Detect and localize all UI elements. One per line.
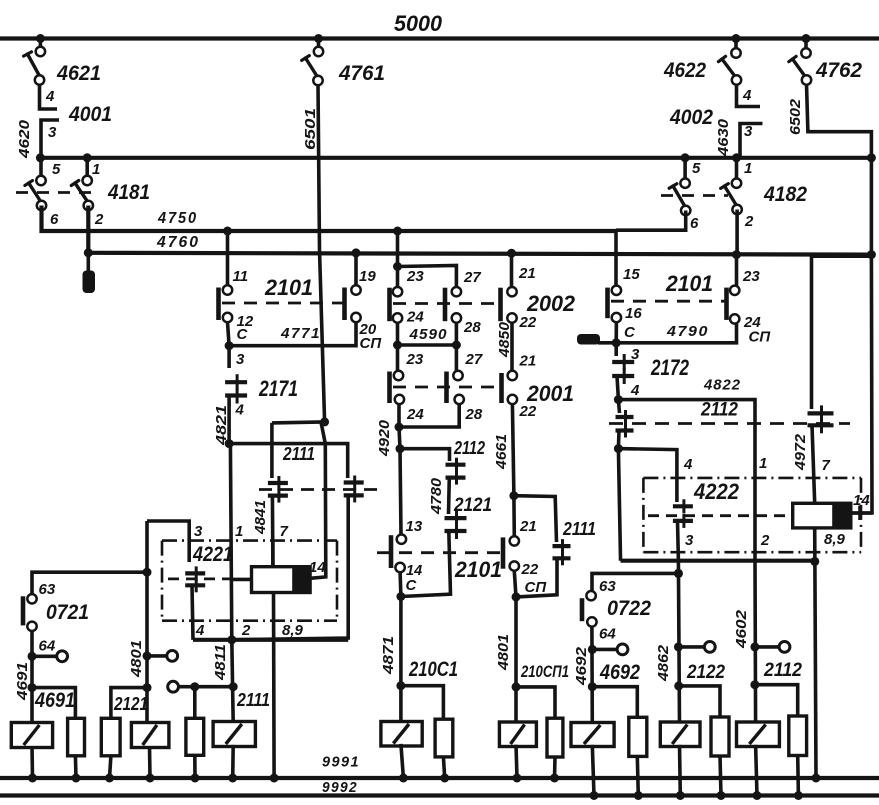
node 4821 tee xyxy=(225,439,234,448)
svg-text:2121: 2121 xyxy=(453,494,492,516)
svg-text:6502: 6502 xyxy=(787,98,804,135)
node 2112L bottom xyxy=(614,444,623,453)
svg-text:2112: 2112 xyxy=(763,659,802,681)
node 9991 wire 8-9 4222 xyxy=(812,774,821,783)
cable marker right xyxy=(598,341,616,345)
node 4692 tie xyxy=(588,682,597,691)
svg-text:2: 2 xyxy=(241,622,251,639)
resistor 4692 xyxy=(629,717,647,756)
terminal 64 right xyxy=(592,648,617,652)
svg-text:8,9: 8,9 xyxy=(282,622,304,639)
node 4760 start xyxy=(84,248,93,257)
terminal 2111 xyxy=(168,681,179,692)
node 9991 2121 res xyxy=(105,774,114,783)
svg-text:4620: 4620 xyxy=(16,119,33,159)
node 4691 tie xyxy=(28,683,37,692)
terminal 64 xyxy=(32,654,57,658)
wire 4692 coil to 9992 xyxy=(592,745,594,796)
svg-text:4: 4 xyxy=(630,382,640,399)
wire 4972 vertical xyxy=(810,256,814,409)
wire 4811 xyxy=(232,640,233,723)
node 9991 210C1 res xyxy=(440,774,449,783)
wire bus 9991 xyxy=(0,776,879,780)
node 9992 2122 res xyxy=(717,791,726,800)
node 2112 circle tie xyxy=(750,642,759,651)
wire right edge vertical xyxy=(870,158,874,255)
wire 4691 res to 9991 xyxy=(74,756,78,778)
svg-text:4181: 4181 xyxy=(107,180,150,204)
wire pin4 4221 inside xyxy=(192,585,193,640)
switch 4621 xyxy=(39,39,43,52)
wire 6501 down to coil 14 xyxy=(310,422,326,578)
wire into contact A xyxy=(270,423,274,478)
node 4760 right corner xyxy=(867,250,876,259)
wire 4692 res to 9992 xyxy=(637,756,638,795)
svg-text:4760: 4760 xyxy=(156,234,200,251)
cam link 2101 left xyxy=(222,302,344,305)
svg-text:22: 22 xyxy=(519,403,537,420)
node 9991 4691 coil xyxy=(28,774,37,783)
tie 24-28 2002 xyxy=(398,322,457,345)
svg-text:24: 24 xyxy=(406,309,424,326)
contact 2171 crosses xyxy=(225,380,247,384)
node 2111 tie xyxy=(229,682,238,691)
resistor 2111 xyxy=(186,718,204,755)
tie 210СП1 xyxy=(516,687,555,718)
node 2112 tie xyxy=(750,680,759,689)
relay 210C1 coil xyxy=(399,686,403,723)
wire 2122 res to 9992 xyxy=(720,756,721,796)
node 2122 tie xyxy=(674,681,683,690)
node 2121 tie xyxy=(143,683,152,692)
pin 24 xyxy=(730,314,739,323)
svg-text:2101: 2101 xyxy=(665,271,713,296)
resistor 210СП1 xyxy=(547,718,563,757)
node tap 4621 on bus 5000 xyxy=(36,34,45,43)
contact inside 4222 xyxy=(675,478,679,502)
svg-text:4841: 4841 xyxy=(252,500,269,535)
svg-text:28: 28 xyxy=(463,319,481,336)
wire 2111 coil to 9991 xyxy=(231,745,235,778)
svg-text:11: 11 xyxy=(233,268,249,285)
wire to pin4 4222 xyxy=(618,449,677,478)
svg-text:2172: 2172 xyxy=(650,355,689,380)
tie 2112 resistor xyxy=(755,685,798,716)
pin 19 xyxy=(351,285,360,294)
node pin5 4182 on bus2 xyxy=(681,153,690,162)
svg-text:4: 4 xyxy=(742,87,752,104)
wire 4691 coil to 9991 xyxy=(30,746,34,778)
wire 4602 pin2 down xyxy=(753,561,757,724)
svg-text:4850: 4850 xyxy=(496,321,513,358)
svg-text:4790: 4790 xyxy=(666,323,709,340)
wire 8-9 down xyxy=(272,593,276,779)
node 9991 2121 coil xyxy=(146,774,155,783)
node pin1 4181 on bus2 xyxy=(83,153,92,162)
pin 22 2001 xyxy=(508,395,517,404)
cam bar 2002-b xyxy=(443,288,448,322)
wire 4771 xyxy=(228,322,357,346)
wire 4850 xyxy=(510,322,514,371)
bus 4222 bottom xyxy=(621,559,817,563)
contact 2172 crosses xyxy=(612,360,634,364)
pin 23 2001 xyxy=(394,371,403,380)
pin 21 2002 xyxy=(507,287,516,296)
node 4822 tee xyxy=(614,395,623,404)
resistor 4691 xyxy=(68,718,85,756)
linkage 4181 xyxy=(16,191,94,194)
svg-text:4691: 4691 xyxy=(14,662,31,701)
wire pin21 mid from node xyxy=(512,496,516,536)
svg-text:2101: 2101 xyxy=(454,557,502,582)
svg-text:64: 64 xyxy=(599,626,616,643)
node 4771 tee xyxy=(225,341,234,350)
node 9992 4692 coil xyxy=(590,791,599,800)
wire pin7 through coil xyxy=(271,541,275,567)
tick pin14 xyxy=(858,506,861,520)
svg-text:2111: 2111 xyxy=(236,690,270,710)
bus 4221 bottom xyxy=(193,638,348,642)
wire bus 4750 xyxy=(42,206,617,232)
cam bar 2101L-a xyxy=(216,288,221,321)
svg-text:4002: 4002 xyxy=(669,105,713,129)
coil 4221 left stub xyxy=(232,578,252,582)
pin 21 2002 drop xyxy=(510,253,514,287)
wire 2121 res to 9991 xyxy=(110,756,111,778)
node 0722 feed xyxy=(674,569,683,578)
wire bus 9992 xyxy=(0,793,879,797)
tie 4692 resistor xyxy=(592,687,637,718)
svg-text:3: 3 xyxy=(48,124,57,141)
wire 2121 coil to 9991 xyxy=(148,746,152,778)
node 9991 210C1 coil xyxy=(399,774,408,783)
pin 19 drop xyxy=(354,253,358,285)
cam link 2101 mid xyxy=(377,551,502,554)
svg-text:2: 2 xyxy=(760,532,770,549)
wire 4182 pole2 down to pin23 xyxy=(735,210,739,255)
tie 24-28 2001 xyxy=(399,404,459,427)
cam bar 2002-c xyxy=(498,288,503,322)
node 9991 2111 res xyxy=(191,774,200,783)
node 4001 bottom on bus2 xyxy=(36,153,45,162)
coil 4222 xyxy=(793,503,851,528)
cam bar 2101M-b xyxy=(501,537,506,568)
node 24-2001 tie xyxy=(395,423,404,432)
wire 2111 return xyxy=(517,558,557,597)
svg-text:4222: 4222 xyxy=(693,479,739,504)
switch 4761 xyxy=(317,39,321,52)
svg-text:3: 3 xyxy=(744,123,753,140)
contact 2112 feed xyxy=(400,449,450,461)
svg-text:2002: 2002 xyxy=(526,291,575,316)
wire 2111 res to 9991 xyxy=(193,755,197,778)
svg-text:2112: 2112 xyxy=(453,438,485,458)
svg-text:4: 4 xyxy=(235,402,245,419)
node 0722 top xyxy=(674,569,683,578)
wire pin3 4221 xyxy=(147,521,189,562)
svg-text:4: 4 xyxy=(195,622,205,639)
node 4760 pin2-4182 xyxy=(732,250,741,259)
wire 8-9 4222 down xyxy=(815,528,816,778)
pin 22 2002 xyxy=(507,313,516,322)
pin 11 xyxy=(223,285,232,294)
svg-text:4692: 4692 xyxy=(573,646,590,686)
svg-text:4691: 4691 xyxy=(34,688,75,712)
svg-text:4590: 4590 xyxy=(408,326,447,343)
node C net xyxy=(396,592,405,601)
svg-text:2111: 2111 xyxy=(282,444,315,464)
node 64 tie xyxy=(28,652,37,661)
svg-text:C: C xyxy=(237,326,249,343)
svg-text:3: 3 xyxy=(236,351,245,368)
svg-text:4822: 4822 xyxy=(703,377,741,394)
svg-text:14: 14 xyxy=(309,559,326,576)
node 4750 right end corner xyxy=(614,230,618,285)
node 210C1 tie xyxy=(396,681,405,690)
wire 2112L to bus 4222 xyxy=(618,449,620,561)
pin 20 xyxy=(351,313,360,322)
svg-text:4622: 4622 xyxy=(663,58,706,82)
svg-text:2122: 2122 xyxy=(686,661,725,683)
wire 4750 drop to pins 23-27 of 2002 xyxy=(396,231,400,267)
contact 2112 right crosses xyxy=(808,411,834,415)
contact 2112 crosses xyxy=(446,463,466,467)
contact 4001 pin 3 side xyxy=(41,120,59,158)
node 64 tie right xyxy=(588,645,597,654)
cam bar 2101M-a xyxy=(389,535,394,568)
wire 2112 coil to 9992 xyxy=(756,745,757,796)
node pin2 to 4811 xyxy=(227,635,236,644)
wire 4780 xyxy=(447,478,451,514)
svg-text:28: 28 xyxy=(465,406,483,423)
relay 2111 coil xyxy=(213,722,255,747)
svg-text:22: 22 xyxy=(521,561,539,578)
svg-text:23: 23 xyxy=(406,351,424,368)
svg-text:22: 22 xyxy=(519,314,537,331)
wire 4790 xyxy=(616,322,736,343)
svg-text:4780: 4780 xyxy=(428,477,445,515)
svg-text:4221: 4221 xyxy=(192,542,233,566)
coil 4221 xyxy=(252,567,311,593)
cam link 2101 right xyxy=(611,300,725,303)
wire 210СП1 coil to 9991 xyxy=(516,745,517,778)
cam bar 2002-a xyxy=(387,288,392,322)
cam link inside 4221 xyxy=(168,578,234,581)
linkage 4182 xyxy=(661,194,728,197)
wire 4760 ext to 4972 xyxy=(812,254,872,258)
enclosure 4222 xyxy=(643,477,861,480)
node 4760 drop pin19 xyxy=(352,248,361,257)
relay 4692 coil xyxy=(571,723,614,747)
pin 21 mid xyxy=(510,536,519,545)
pin 23 xyxy=(730,286,739,295)
wire 2122 coil to 9992 xyxy=(678,745,682,796)
svg-text:4692: 4692 xyxy=(599,660,640,684)
svg-text:4750: 4750 xyxy=(157,210,198,227)
node 9991 2111 coil xyxy=(228,774,237,783)
wire 4871 xyxy=(399,597,403,686)
svg-text:63: 63 xyxy=(599,578,616,595)
wire 4841 to pin 7 xyxy=(271,496,275,567)
node tap 4622 on bus 5000 xyxy=(732,34,741,43)
wire pins 1-2 through xyxy=(230,444,231,640)
svg-text:2: 2 xyxy=(94,211,104,228)
resistor 2112 xyxy=(789,716,807,756)
contact 2111 crosses B xyxy=(344,480,364,484)
node 4750 drop pins 23-27 xyxy=(393,227,402,236)
wire 2112 res to 9992 xyxy=(796,756,800,796)
contact 2111 crosses A xyxy=(268,481,288,485)
resistor 210C1 xyxy=(435,719,453,757)
node 9992 2122 coil xyxy=(676,791,685,800)
svg-text:3: 3 xyxy=(685,532,694,549)
relay 2122 coil xyxy=(660,722,700,747)
wire 4801 right xyxy=(514,597,518,687)
svg-text:4661: 4661 xyxy=(493,434,510,470)
cam bar 2101R-a xyxy=(605,288,610,319)
svg-text:4001: 4001 xyxy=(68,102,112,126)
node 4760 drop pin21-2002 xyxy=(507,249,516,258)
svg-text:4801: 4801 xyxy=(128,640,145,678)
pin 15 xyxy=(612,286,621,295)
node 2112 branch xyxy=(396,444,405,453)
wire 6501 vertical from 4761 xyxy=(318,85,325,422)
svg-text:7: 7 xyxy=(280,523,289,540)
wire pin22 mid down xyxy=(514,571,516,597)
wire 2121 to C-net xyxy=(401,531,451,597)
svg-text:5: 5 xyxy=(692,160,701,177)
node 9992 2112 coil xyxy=(753,791,762,800)
svg-text:4761: 4761 xyxy=(338,61,385,85)
node 4750 drop pin11 xyxy=(223,227,232,236)
svg-text:1: 1 xyxy=(235,523,243,540)
wire 6501 branch to contact A xyxy=(272,422,325,423)
node 4661-2111 xyxy=(509,491,518,500)
cam bar 2001-c xyxy=(499,373,504,403)
svg-text:6: 6 xyxy=(690,215,699,232)
svg-text:C: C xyxy=(406,577,418,594)
wire C pin16 down xyxy=(614,343,618,356)
svg-text:5000: 5000 xyxy=(394,11,442,36)
svg-text:8,9: 8,9 xyxy=(824,531,846,548)
svg-text:2171: 2171 xyxy=(258,376,298,401)
wire 0721 pin64 xyxy=(30,631,34,688)
pin 14 xyxy=(395,563,404,572)
svg-text:2: 2 xyxy=(744,213,754,230)
node 8-9 on bus xyxy=(810,557,819,566)
node 4790 tee xyxy=(612,338,621,347)
cam bar 2001-b xyxy=(444,372,449,404)
node 9991 wire 8-9 xyxy=(270,774,279,783)
svg-text:2111: 2111 xyxy=(562,519,596,539)
cam bar 2001-a xyxy=(387,372,392,404)
pin 24 2001 xyxy=(395,395,404,404)
node bus2 right corner xyxy=(867,153,876,162)
svg-text:21: 21 xyxy=(519,353,537,370)
svg-text:9991: 9991 xyxy=(322,754,360,771)
svg-text:4182: 4182 xyxy=(763,182,807,206)
pin 21 2001 xyxy=(508,371,517,380)
svg-text:9992: 9992 xyxy=(322,779,358,796)
svg-text:27: 27 xyxy=(463,269,481,286)
svg-text:19: 19 xyxy=(359,268,376,285)
wire 2171 pin4 xyxy=(227,396,231,444)
svg-text:4621: 4621 xyxy=(56,61,101,85)
wire contact B down to 4221 bus xyxy=(232,495,348,639)
node tap 4761 on bus 5000 xyxy=(314,34,323,43)
pin 27 2001 xyxy=(453,371,462,380)
svg-text:6501: 6501 xyxy=(302,108,319,150)
node 28-2002 tie xyxy=(452,341,461,350)
relay 2121 coil xyxy=(131,723,169,748)
wire 4862 from bus xyxy=(678,561,679,724)
wire 4821 branch to contact B xyxy=(229,444,348,478)
pin 23 2002 xyxy=(393,287,402,296)
wire 2172 pin4 xyxy=(617,376,618,400)
wire 4822 xyxy=(618,400,755,478)
svg-text:1: 1 xyxy=(92,161,100,178)
pin 24 2002 xyxy=(393,313,402,322)
cam link 2111 xyxy=(259,488,382,491)
switch 4622 xyxy=(734,39,738,52)
terminal 2112 xyxy=(755,645,779,649)
pin 22 mid xyxy=(510,561,519,570)
resistor 2122 xyxy=(711,717,729,756)
svg-text:27: 27 xyxy=(465,351,483,368)
svg-text:C: C xyxy=(624,324,636,341)
node 2111 res xyxy=(190,682,199,691)
node 6501 tee xyxy=(320,417,329,426)
cam link inside 4222 xyxy=(648,514,790,517)
enclosure 4221 xyxy=(162,539,337,542)
svg-text:16: 16 xyxy=(625,305,642,322)
tie 2122 resistor xyxy=(679,686,720,717)
svg-text:24: 24 xyxy=(406,406,424,423)
pushbutton 0721 xyxy=(32,572,147,594)
node 9992 4692 res xyxy=(634,791,643,800)
relay 4691 coil xyxy=(30,688,34,724)
contact inside 4221 xyxy=(185,571,205,575)
svg-text:4801: 4801 xyxy=(495,634,512,671)
svg-text:4871: 4871 xyxy=(380,636,397,675)
resistor 2111 wire xyxy=(193,687,197,719)
cam link 2112 group xyxy=(609,422,850,425)
svg-text:СП: СП xyxy=(525,579,548,596)
tie 2121 resistor xyxy=(111,688,147,719)
node СП net xyxy=(512,592,521,601)
svg-text:4972: 4972 xyxy=(792,433,809,471)
node 0721 feed2 xyxy=(143,651,152,660)
svg-text:14: 14 xyxy=(853,492,870,509)
resistor 2121 xyxy=(101,718,120,756)
node pin1 4182 on bus2 xyxy=(732,153,741,162)
node 9991 4691 res xyxy=(72,774,81,783)
tie 210C1 xyxy=(401,686,444,720)
cam link 2002 xyxy=(393,302,502,305)
svg-text:23: 23 xyxy=(406,268,424,285)
svg-text:2101: 2101 xyxy=(264,275,313,300)
relay 2112 coil xyxy=(737,722,780,747)
svg-text:2112: 2112 xyxy=(700,399,738,421)
wire C pin12 down xyxy=(227,346,231,368)
pin 12 xyxy=(223,313,232,322)
pin 16 xyxy=(612,313,621,322)
wire bus 5000 xyxy=(0,36,879,40)
wire bus 4760 xyxy=(88,206,871,255)
wire 2112L feed xyxy=(618,400,619,413)
wire pin3 4222 inside xyxy=(676,521,681,561)
contact 4002 pin 4 side xyxy=(737,84,761,107)
